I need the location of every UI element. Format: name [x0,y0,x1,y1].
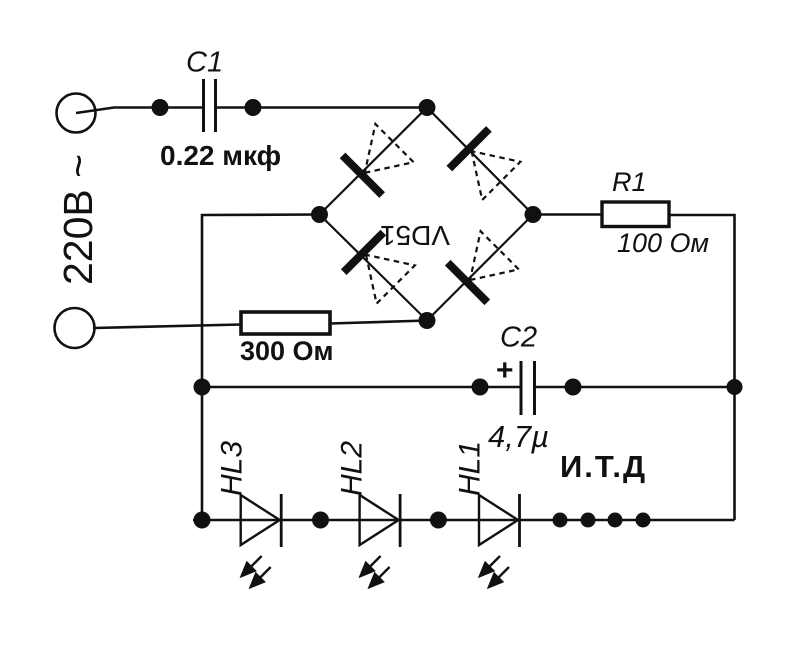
LED HL3 [241,494,282,587]
LED HL1 [479,494,520,587]
node dot before C2 [472,379,489,396]
diode VD5.2 top-right [449,129,521,201]
node dot bus left [194,379,211,396]
svg-text:HL2: HL2 [336,441,369,496]
wire bridge right to R1 [533,213,601,216]
etc dot 1 [553,513,568,528]
etc dot 3 [608,513,623,528]
node dot bridge right [525,206,542,223]
node dot between HL3 and HL2 [312,512,329,529]
svg-text:C2: C2 [500,322,537,354]
svg-text:+: + [496,354,514,387]
resistor 300 Ом [241,312,330,334]
terminal T1 (220V input, top) [57,94,96,133]
wire C1 to bridge top [216,106,427,109]
wire terminal T2 to R300 [93,325,241,329]
wire terminal T1 to C1 [76,108,203,114]
svg-text:И.Т.Д: И.Т.Д [560,449,647,484]
svg-text:300 Ом: 300 Ом [240,336,334,366]
svg-text:VD51: VD51 [380,220,450,251]
node dot LED row left [194,512,211,529]
wire R1 to right rail [669,215,735,520]
svg-text:220В ~: 220В ~ [55,154,101,285]
bus wire left rail to C2 [202,386,520,389]
node dot between HL2 and HL1 [430,512,447,529]
diode VD5.4 bottom-right [448,231,520,303]
node dot A [152,99,169,116]
node dot bridge top [419,99,436,116]
etc dot 2 [581,513,596,528]
node dot after C2 [565,379,582,396]
svg-text:HL1: HL1 [454,441,487,496]
wire left rail down to LED row [201,387,204,520]
diode VD5.3 bottom-left [344,233,416,305]
wire bridge left to left rail [202,215,320,387]
svg-text:HL3: HL3 [216,441,249,496]
diode VD5.1 top-left [343,123,415,195]
LED row wire [193,519,735,522]
svg-text:0.22 мкф: 0.22 мкф [160,140,281,171]
resistor R1 [602,202,669,227]
capacitor C2 [520,361,523,415]
svg-text:R1: R1 [612,167,647,197]
LED HL2 [360,494,401,587]
diode bridge VD5 diamond wires [320,108,534,321]
svg-text:C1: C1 [186,47,223,79]
node dot bridge left [311,206,328,223]
wire C2 to right rail [536,386,735,389]
terminal T2 (220V input, bottom) [55,308,95,348]
svg-text:4,7µ: 4,7µ [488,419,549,454]
capacitor C1 [202,79,205,132]
node dot bridge bottom [419,312,436,329]
node dot B [245,99,262,116]
node dot bus right [727,379,743,395]
svg-text:100 Ом: 100 Ом [617,228,709,258]
wire R300 to bridge bottom [330,321,427,324]
etc dot 4 [636,513,651,528]
